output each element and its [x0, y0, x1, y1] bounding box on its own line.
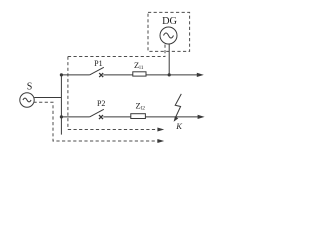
breaker P2 blade	[90, 109, 104, 117]
wire DG to line 1	[168, 44, 170, 75]
arrow S dashed	[157, 139, 164, 143]
line 1 wire left of P1	[61, 74, 89, 76]
arrow line 1	[197, 73, 204, 77]
svg-text:S: S	[27, 82, 33, 93]
svg-text:P2: P2	[97, 99, 105, 108]
dashed link DG box to zone boundary	[164, 45, 166, 57]
svg-text:P1: P1	[94, 59, 102, 68]
fault bolt	[175, 94, 181, 119]
zone boundary dashed left edge	[67, 57, 69, 130]
line 1 wire P1 to Z	[103, 74, 133, 76]
S sine symbol	[23, 98, 31, 102]
line 2 wire P2 to Z	[103, 116, 131, 118]
junction dot bus-line2	[60, 115, 63, 118]
line 1 wire Z to arrow	[146, 74, 198, 76]
junction dot bus-line1	[60, 73, 63, 76]
DG enclosure dashed box	[148, 12, 190, 51]
DG sine symbol	[164, 33, 174, 38]
junction dot DG-line1	[168, 73, 171, 76]
line 2 wire Z to arrow	[145, 116, 198, 118]
fault bolt arrowhead	[174, 116, 179, 122]
bus vertical	[60, 75, 62, 135]
dashed path from S	[34, 102, 158, 141]
breaker P2 cross	[99, 115, 103, 119]
arrow line 2	[198, 115, 205, 119]
impedance Zl2 box	[131, 114, 146, 119]
zone boundary dashed top edge	[68, 56, 165, 58]
generator DG circle	[160, 27, 177, 44]
line 2 wire left of P2	[61, 116, 89, 118]
zone boundary dashed bottom edge with arrow	[68, 129, 158, 131]
breaker P1 blade	[90, 67, 104, 75]
svg-text:DG: DG	[162, 16, 177, 27]
wire S to bus	[34, 97, 61, 99]
impedance Zl1 box	[133, 72, 146, 76]
source S circle	[20, 93, 34, 107]
breaker P1 cross	[99, 73, 103, 77]
arrow zone dashed	[157, 128, 164, 132]
